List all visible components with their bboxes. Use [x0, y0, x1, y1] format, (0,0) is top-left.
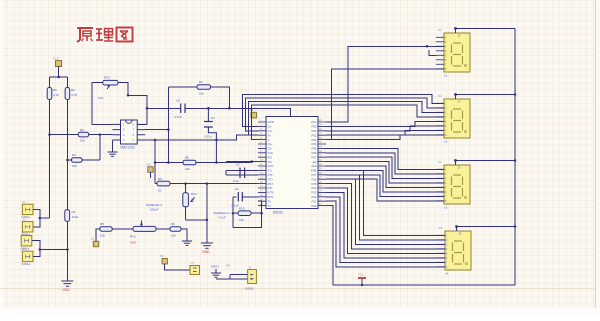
- wire U2 to L3 pin 2: [326, 153, 444, 174]
- svg-text:P23: P23: [312, 191, 317, 195]
- microcontroller U2 (89C51) body: [266, 117, 318, 209]
- wire row y108 left segment: [147, 107, 180, 109]
- title text 原理图 (schematic title): [77, 28, 133, 43]
- wire R4 to riser: [82, 159, 100, 161]
- push button S2: [22, 222, 33, 232]
- wire U2 to L4 pin 8: [326, 201, 445, 267]
- svg-text:GND: GND: [130, 241, 136, 245]
- wire U2 to L4 pin 7: [326, 197, 445, 262]
- svg-text:10uF: 10uF: [72, 215, 79, 219]
- svg-text:L2: L2: [444, 140, 448, 144]
- svg-text:R2I: R2I: [268, 155, 273, 159]
- svg-text:C1+: C1+: [268, 129, 274, 133]
- wire S3 to junction: [32, 241, 40, 250]
- wire U2 P0.0 to L2 pin 5: [326, 121, 444, 126]
- wire U2 left pin 4 over top to L2 pin 3: [249, 101, 445, 135]
- junction Q1 collector: [184, 182, 187, 185]
- wire left pull-up column (node A): [49, 100, 51, 219]
- svg-text:P27: P27: [312, 173, 317, 177]
- wire J2 pins join: [229, 274, 231, 278]
- svg-text:GND1: GND1: [211, 265, 219, 269]
- svg-text:P07: P07: [312, 155, 317, 159]
- ground (R6): [182, 241, 192, 245]
- svg-text:S2: S2: [22, 218, 26, 222]
- svg-text:T1I: T1I: [268, 169, 272, 173]
- svg-text:10k: 10k: [185, 167, 190, 171]
- resistor R3: [78, 132, 89, 137]
- wire Q-column x155: [154, 140, 156, 184]
- wire trunk right vertical: [514, 29, 516, 286]
- svg-text:10k: 10k: [72, 164, 77, 168]
- wire S4 to junction: [33, 250, 40, 257]
- 7-segment display L3: [436, 159, 470, 209]
- wire S1S2 junction to column A: [40, 217, 50, 219]
- svg-text:P01: P01: [312, 129, 317, 133]
- svg-text:R3: R3: [80, 128, 84, 132]
- wire loop right side: [128, 95, 147, 124]
- svg-text:SQZE1E1.2: SQZE1E1.2: [214, 211, 230, 215]
- resistor R1: [47, 88, 52, 100]
- potentiometer RV2: [133, 226, 156, 231]
- push button S4: [22, 251, 33, 261]
- svg-text:MAX1232: MAX1232: [121, 146, 135, 150]
- potentiometer RV2 arrow: [141, 221, 143, 225]
- wire riser x168: [167, 87, 169, 163]
- wire U2 to L4 pin 6: [326, 192, 445, 257]
- junction R2 column / buttons S3 S4: [66, 248, 69, 251]
- wire row y162 to MCU: [155, 161, 258, 164]
- push button S3: [21, 236, 32, 246]
- junction node VCC rail: [57, 76, 60, 79]
- svg-text:P21: P21: [312, 199, 317, 203]
- wire Q1 emitter to trunk: [186, 219, 207, 221]
- wire U2 P0.1 to L2 pin 6: [326, 126, 444, 131]
- svg-text:0.1u: 0.1u: [233, 179, 239, 183]
- svg-text:R9: R9: [158, 177, 162, 181]
- wire across to U2 pin 4: [216, 135, 258, 140]
- wire ground to J2 pin 2: [216, 278, 227, 280]
- svg-text:S3: S3: [21, 232, 25, 236]
- svg-text:T2I: T2I: [268, 160, 272, 164]
- wire U2 to L4 pin 5: [326, 188, 445, 253]
- wire VCC terminal down: [58, 67, 60, 78]
- power port VCC (bottom): [361, 278, 363, 285]
- wire U2 to L3 pin 6: [326, 170, 444, 191]
- svg-text:P37: P37: [268, 186, 273, 190]
- wire U2 to L3 pin 8: [326, 179, 444, 201]
- wire L3 common to trunk: [456, 160, 516, 162]
- ground (bottom-left): [61, 281, 73, 286]
- junction trunk / L2: [514, 93, 517, 96]
- wire riser from R4: [99, 135, 101, 160]
- junction trimmer loop right / row: [146, 107, 149, 110]
- push button S1: [22, 204, 33, 214]
- wire S2 to junction: [33, 218, 40, 227]
- wire to J2 pin 2: [227, 278, 248, 280]
- svg-text:4.7K: 4.7K: [53, 93, 59, 97]
- svg-text:VCC: VCC: [53, 57, 59, 61]
- wire loop to U1 pin 8: [137, 123, 147, 125]
- svg-text:P05: P05: [312, 147, 317, 151]
- svg-text:S1: S1: [22, 200, 26, 204]
- svg-text:C2: C2: [236, 163, 240, 167]
- svg-text:4.7uF: 4.7uF: [218, 216, 226, 220]
- junction row / C7 branch: [207, 107, 210, 110]
- capacitor C5 (column B): [65, 210, 70, 222]
- svg-text:INT1: INT1: [268, 195, 275, 199]
- svg-text:R2: R2: [71, 88, 75, 92]
- svg-text:0.22u: 0.22u: [204, 135, 212, 139]
- svg-text:4.7uF: 4.7uF: [174, 115, 182, 119]
- svg-text:L1: L1: [444, 74, 448, 78]
- wire U2 left pin 5 over top to L2 pin 4: [251, 105, 444, 140]
- svg-text:10k: 10k: [171, 234, 176, 238]
- resistor R4: [72, 158, 83, 163]
- wire S1 to junction: [33, 209, 40, 218]
- resistor R6: [170, 227, 181, 232]
- svg-text:10k: 10k: [80, 139, 85, 143]
- wire U2 to L3 pin 5: [326, 166, 444, 187]
- power flag (U2 top-left): [251, 112, 257, 118]
- connector J2 (CON2): [248, 270, 257, 284]
- resistor R8: [183, 160, 196, 165]
- wire T1 to R5: [96, 229, 100, 241]
- svg-text:P20: P20: [312, 204, 317, 208]
- transistor Q1 arrow: [191, 197, 195, 202]
- 7-segment display L1: [436, 27, 470, 77]
- transistor Q1 body: [183, 193, 189, 207]
- ground (under U1): [108, 152, 118, 156]
- svg-text:L4: L4: [445, 272, 449, 276]
- wire right pull-up column (node B): [66, 100, 68, 210]
- svg-text:V+: V+: [268, 133, 272, 137]
- svg-text:P25: P25: [312, 182, 317, 186]
- svg-text:C3: C3: [235, 187, 239, 191]
- terminal T2: [162, 259, 167, 264]
- svg-text:10k: 10k: [239, 218, 244, 222]
- svg-text:RV1: RV1: [191, 192, 197, 196]
- wire U1 pin 5 across: [145, 139, 216, 141]
- junction emitter / trunk: [206, 219, 209, 222]
- svg-text:P24: P24: [312, 186, 317, 190]
- wire U2 P0.0 up to L1 pin 3: [326, 46, 444, 122]
- wire S3S4 junction to column B: [40, 249, 68, 251]
- wire row y108 right segment: [185, 108, 291, 116]
- wire XTAL2: [226, 174, 258, 176]
- crystal Y1: [240, 168, 245, 179]
- trimmer RV3 wiper arrow: [107, 85, 110, 89]
- svg-text:R7: R7: [199, 80, 203, 84]
- svg-text:VCC: VCC: [358, 273, 364, 277]
- wire U2 P0.4 up to L1 pin 8: [326, 69, 444, 140]
- svg-text:T0: T0: [268, 199, 272, 203]
- junction C7 branch / row y162: [215, 161, 218, 164]
- svg-text:VCC: VCC: [311, 120, 317, 124]
- wire R6 to ground: [181, 229, 187, 241]
- junction trunk / VCC: [361, 284, 364, 287]
- svg-text:T1: T1: [268, 204, 272, 208]
- wire U2 to L4 pin 3: [326, 179, 445, 244]
- svg-text:P2: P2: [160, 254, 164, 258]
- svg-text:D2: D2: [438, 94, 442, 98]
- junction R1 column / R3 wire: [48, 133, 51, 136]
- junction Q-column / row y162: [154, 161, 157, 164]
- junction trimmer loop: [127, 94, 130, 97]
- svg-text:P26: P26: [312, 177, 317, 181]
- ground (center, GND labelled): [201, 243, 213, 248]
- wire reset cap left: [233, 196, 237, 198]
- wire trimmer loop left/top: [92, 83, 103, 125]
- svg-text:CON2: CON2: [245, 287, 254, 291]
- 7-segment display L2: [436, 93, 470, 143]
- svg-text:GND: GND: [268, 120, 274, 124]
- svg-text:100uF: 100uF: [150, 208, 159, 212]
- wire to J2 pin 1: [230, 273, 248, 275]
- ground (near J2): [215, 269, 217, 273]
- wire U1 pin 7 to riser: [145, 129, 168, 131]
- svg-text:EA: EA: [313, 160, 317, 164]
- wire R1-column to R3: [50, 134, 79, 136]
- wire column B to R4: [67, 159, 71, 161]
- op-amp U1 (8-pin DIP): [113, 120, 146, 144]
- junction S1/S2: [39, 217, 42, 220]
- capacitor C3 (reset): [238, 192, 242, 202]
- svg-text:10k: 10k: [100, 234, 105, 238]
- wire R10 to loop right: [251, 212, 262, 214]
- junction R7 lead / row: [228, 107, 231, 110]
- junction C7 branch / U1 wire: [215, 139, 218, 142]
- svg-text:D3: D3: [438, 160, 442, 164]
- svg-text:C5: C5: [72, 210, 76, 214]
- wire U2 to L3 pin 4: [326, 162, 444, 183]
- wire U2 left pin 2 over top to L2 pin 1: [243, 94, 444, 126]
- wire U2 to L3 pin 3: [326, 157, 444, 178]
- wire U2 to L3 pin 1: [326, 148, 444, 169]
- svg-text:1K: 1K: [191, 198, 195, 202]
- junction trunk / L3: [514, 159, 517, 162]
- junction trunk / L4: [514, 225, 517, 228]
- wire to U2 pin 10: [226, 161, 258, 163]
- svg-text:4.7: 4.7: [226, 264, 231, 268]
- wire U2 P0.2 to L2 pin 7: [326, 130, 444, 135]
- wire reset loop bottom/right: [233, 201, 262, 227]
- junction pin 10 wire: [251, 160, 254, 163]
- wire trunk bottom: [333, 284, 515, 286]
- wire R5 to RV2: [112, 228, 133, 230]
- svg-text:V-: V-: [268, 138, 271, 142]
- resistor R9: [157, 181, 170, 186]
- wire XTAL1: [226, 169, 258, 171]
- svg-text:RV3: RV3: [104, 76, 110, 80]
- junction reset loop / R10: [232, 212, 235, 215]
- wire terminal stub: [150, 172, 152, 178]
- svg-text:CON1a: CON1a: [21, 262, 30, 266]
- svg-text:R6: R6: [171, 222, 175, 226]
- svg-text:R1: R1: [53, 88, 57, 92]
- junction near MCU pin: [251, 160, 254, 163]
- wire to resistor R1: [49, 77, 51, 88]
- svg-text:RST: RST: [268, 182, 274, 186]
- 7-segment display L4: [437, 225, 471, 275]
- svg-text:89C51: 89C51: [273, 211, 283, 215]
- svg-text:R5: R5: [100, 222, 104, 226]
- svg-text:PSE: PSE: [311, 169, 317, 173]
- junction wire / Q-column: [154, 139, 157, 142]
- wire R7 right lead down: [211, 87, 230, 108]
- trimmer RV3: [103, 80, 118, 85]
- capacitor C6 (series): [181, 104, 185, 114]
- wire R3 to U1 pin 2: [89, 134, 113, 136]
- connector J1: [190, 266, 200, 275]
- wire reset loop left: [232, 197, 234, 228]
- svg-text:GND: GND: [63, 288, 71, 292]
- svg-text:XT2: XT2: [268, 177, 274, 181]
- wire U2 to L4 pin 1: [326, 170, 445, 235]
- wire T2 to J1: [165, 264, 190, 270]
- wire L4 common to trunk: [457, 226, 516, 228]
- svg-text:D4: D4: [439, 226, 443, 230]
- wire L1 common to trunk: [456, 28, 516, 30]
- svg-text:P1: P1: [91, 237, 95, 241]
- svg-text:1k: 1k: [158, 189, 162, 193]
- svg-text:R4: R4: [72, 153, 76, 157]
- resistor R2: [65, 88, 70, 100]
- wire trunk left vertical from U2 pin 20: [326, 206, 333, 285]
- junction row y183 / ground trunk: [206, 182, 209, 185]
- wire row y183 to MCU: [155, 183, 258, 185]
- svg-text:C6: C6: [176, 99, 180, 103]
- svg-text:ALE: ALE: [311, 164, 316, 168]
- wire R7 left lead: [168, 86, 197, 88]
- svg-text:D1: D1: [438, 28, 442, 32]
- wire U1 pin 4 to ground: [112, 140, 114, 152]
- resistor R10: [238, 211, 251, 216]
- resistor R5: [100, 227, 112, 232]
- junction S3/S4: [39, 248, 42, 251]
- svg-text:R10: R10: [239, 207, 245, 211]
- capacitor C7 (vertical branch): [208, 108, 216, 162]
- wire VCC rail horizontal: [50, 76, 68, 78]
- wire crystal left join: [225, 170, 227, 174]
- wire U2 P0.3 to L2 pin 8: [326, 135, 444, 140]
- svg-text:C7: C7: [211, 116, 215, 120]
- svg-text:10K: 10K: [98, 96, 103, 100]
- svg-text:T2O: T2O: [268, 151, 274, 155]
- svg-text:C1-: C1-: [268, 125, 273, 129]
- wire to resistor R2: [66, 77, 68, 88]
- wire U2 to L4 pin 2: [326, 175, 445, 240]
- wire reset cap to U2 pin 17: [242, 196, 258, 198]
- wire U2 left pin 3 over top to L2 pin 2: [246, 98, 444, 131]
- svg-text:4.7K: 4.7K: [71, 93, 77, 97]
- svg-text:VCC: VCC: [146, 163, 152, 167]
- power terminal (mid): [148, 167, 153, 172]
- junction loop right / R10: [260, 212, 263, 215]
- wire column B lower: [66, 221, 68, 281]
- wire loop bottom to U1 pin 1: [92, 123, 113, 125]
- U2 pin stubs and pin labels: [258, 119, 326, 208]
- junction riser/row wire: [167, 161, 170, 164]
- wire U2 to L4 pin 4: [326, 184, 445, 249]
- svg-text:R2O: R2O: [268, 164, 275, 168]
- svg-text:C2+: C2+: [268, 142, 274, 146]
- power terminal VCC (top-left): [56, 61, 62, 67]
- svg-text:P04: P04: [312, 142, 317, 146]
- svg-text:P00: P00: [312, 125, 317, 129]
- wire RV2 to R6: [156, 228, 170, 230]
- svg-text:P22: P22: [312, 195, 317, 199]
- svg-text:R8: R8: [185, 156, 189, 160]
- svg-text:P06: P06: [312, 151, 317, 155]
- wire U2 to L3 pin 7: [326, 175, 444, 197]
- svg-text:L3: L3: [444, 206, 448, 210]
- junction R3 wire / R4 riser: [99, 133, 102, 136]
- junction R2 column / R4 wire: [66, 159, 69, 162]
- wire L2 common to trunk: [456, 94, 516, 96]
- wire trimmer to corner: [118, 83, 128, 96]
- svg-text:P02: P02: [312, 133, 317, 137]
- svg-text:S4: S4: [22, 247, 26, 251]
- svg-text:C2-: C2-: [268, 147, 273, 151]
- svg-text:10k: 10k: [199, 92, 204, 96]
- junction U1 pin7 / riser: [167, 128, 170, 131]
- wire to R10: [233, 212, 238, 214]
- wire L1 pin 5 hook: [429, 50, 436, 55]
- resistor R7: [197, 85, 211, 90]
- svg-text:P03: P03: [312, 138, 317, 142]
- svg-text:SQZE1E1.2: SQZE1E1.2: [146, 203, 162, 207]
- junction on L1 pin 3 wire: [426, 45, 429, 48]
- svg-text:XT1: XT1: [268, 173, 274, 177]
- svg-text:RV2: RV2: [130, 235, 136, 239]
- svg-text:INT0: INT0: [268, 191, 275, 195]
- wire ground trunk x207: [206, 184, 208, 243]
- terminal T1: [93, 241, 98, 246]
- svg-text:GND: GND: [202, 250, 210, 254]
